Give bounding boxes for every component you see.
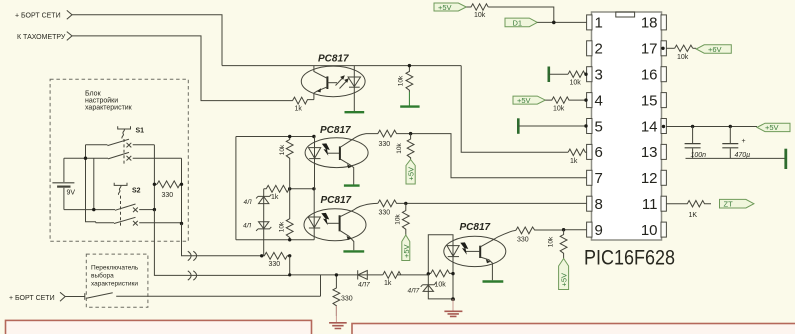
wire from + БОРТ СЕТИ to PC817 U1 rail [72, 15, 222, 66]
wire diode row (chevron row2 to PC817 U4) [290, 274, 429, 276]
svg-text:330: 330 [162, 192, 174, 199]
dashed box Блок настройки характеристик [50, 79, 188, 241]
svg-text:3: 3 [595, 67, 603, 84]
svg-text:+5V: +5V [517, 96, 531, 105]
red frame (bottom left table) [6, 320, 312, 334]
power flag +5V (pin 4) [513, 96, 545, 105]
op-amp U4 optocoupler PC817 [444, 222, 506, 267]
junction 10k bottom [288, 238, 291, 241]
zener 4Л7 (lower, in ladder) [243, 222, 271, 256]
power flag +6V (pin 17) [693, 45, 732, 54]
ground (earth, red) of U4 [444, 299, 462, 316]
junction cap C2 tap [729, 125, 732, 128]
resistor 10k (pin 4) [545, 97, 586, 113]
wire S1 pole1 output down to S2 row [153, 145, 155, 210]
power flag +5V (vertical, U3) [402, 235, 411, 261]
svg-text:2: 2 [595, 41, 603, 58]
svg-text:14: 14 [641, 118, 658, 135]
pin 8 [587, 196, 603, 213]
svg-text:5: 5 [595, 118, 603, 135]
resistor 10k (pull to +5V, U4 output) [548, 230, 567, 259]
svg-text:+ БОРТ СЕТИ: + БОРТ СЕТИ [9, 295, 55, 302]
transistor Q of U1 [314, 66, 337, 100]
svg-text:10k: 10k [395, 214, 402, 225]
junction battery- bus [92, 208, 95, 211]
power flag +5V (pin 14) [757, 123, 790, 132]
wire S1 pole2 output down to S2 pole2 row [181, 158, 183, 223]
pin 2 [587, 41, 603, 58]
LED D of U2 [309, 137, 321, 189]
power flag +5V (vertical, U2) [406, 160, 416, 185]
wire top feed row to LED chain [236, 136, 314, 138]
svg-text:9: 9 [595, 222, 603, 239]
wire 10k to pin1 [488, 7, 554, 22]
svg-text:D1: D1 [513, 18, 523, 27]
junction diode row [288, 273, 291, 276]
svg-text:S1: S1 [136, 128, 145, 135]
chevron connector row 2 [188, 271, 197, 280]
red frame (bottom right table) [352, 324, 795, 334]
resistor 1k (pin 6 series) [568, 149, 586, 165]
svg-text:4Л7: 4Л7 [408, 288, 420, 295]
svg-text:10k: 10k [570, 80, 582, 87]
svg-text:10k: 10k [474, 12, 486, 19]
svg-text:10: 10 [641, 222, 658, 239]
svg-text:10k: 10k [435, 282, 447, 289]
junction pin1 node [552, 21, 556, 25]
svg-text:10k: 10k [398, 75, 405, 86]
junction LED chain top [312, 135, 315, 138]
wire pin3 [549, 73, 568, 75]
junction 10k top [288, 135, 291, 138]
svg-text:PC817: PC817 [321, 195, 352, 206]
wire pin 14 power rail [666, 126, 757, 128]
svg-text:+5V: +5V [560, 273, 569, 287]
ground (green) of U4 emitter [483, 280, 504, 282]
junction U2 output [409, 132, 412, 135]
capacitor 470µ (polarized) [722, 127, 750, 159]
svg-text:10k: 10k [396, 143, 403, 154]
chevron connector row 1 [188, 251, 197, 260]
junction LED chain mid [312, 187, 315, 190]
svg-text:6: 6 [595, 144, 603, 161]
node + БОРТ СЕТИ (top input connector) [15, 10, 72, 19]
ground (earth, red) under 330 [329, 306, 347, 329]
junction cap C1 tap [691, 125, 694, 128]
svg-text:13: 13 [641, 144, 658, 161]
svg-text:1k: 1k [570, 158, 578, 165]
pin 11 [642, 196, 666, 213]
svg-text:9V: 9V [67, 190, 76, 197]
resistor 330 (inside box1) [154, 181, 181, 199]
wire rail БОРТ СЕТИ to pin6 riser [222, 65, 461, 67]
junction S2 pole1 net [153, 208, 156, 211]
resistor 10k (pull to +5V, U3 output) [395, 203, 410, 235]
wire 1k to LED column [290, 188, 314, 190]
resistor 330 (chevron row 1) [262, 252, 290, 268]
svg-text:470µ: 470µ [735, 152, 751, 159]
svg-text:+5V: +5V [765, 123, 779, 132]
svg-text:8: 8 [595, 196, 603, 213]
wire row A to S1 pole1 [86, 144, 108, 146]
junction U4 output [562, 228, 565, 231]
op-amp U2 optocoupler PC817 [305, 125, 368, 168]
IC U5 PIC16F628 body [584, 12, 675, 270]
svg-text:100n: 100n [691, 152, 707, 159]
pin 5 [587, 118, 603, 135]
junction 330 tap [335, 273, 338, 276]
svg-text:10k: 10k [279, 144, 286, 155]
svg-text:330: 330 [517, 237, 529, 244]
junction pin 3 [584, 73, 587, 76]
ground (green) of U3 emitter [343, 250, 364, 252]
pin 3 [587, 67, 603, 84]
pin 4 [587, 92, 603, 109]
pin 12 [641, 170, 667, 187]
junction row1 330 right [288, 254, 291, 257]
power flag +5V (pin1 pull-up) [434, 3, 466, 12]
wire vertical left bus (row A to S2 pole2) [86, 145, 115, 223]
svg-text:PIC16F628: PIC16F628 [584, 247, 675, 270]
resistor 1K (pin 11) [666, 201, 711, 219]
terminal bar (pin 5) [517, 118, 520, 134]
terminal bar (pin 3) [547, 67, 550, 83]
transistor Q of U2 [328, 134, 366, 185]
net flag D1 [505, 18, 537, 27]
pin 17 [641, 41, 667, 58]
svg-text:1k: 1k [295, 106, 303, 113]
svg-text:ZT: ZT [724, 200, 734, 209]
svg-text:17: 17 [641, 41, 658, 58]
pin 18 [641, 15, 667, 32]
junction U4 LED right [451, 272, 454, 275]
wire U4 output to pin 9 [564, 229, 587, 231]
junction 330 right [180, 183, 183, 186]
wire U2 output to pin 7 [411, 134, 587, 178]
resistor 1k (emitter input of U1) [293, 97, 314, 112]
svg-text:10k: 10k [279, 221, 286, 232]
ground (green) under 10k [400, 92, 419, 107]
wire U3 output to pin 8 [406, 202, 587, 204]
svg-text:10k: 10k [553, 105, 565, 112]
pin 14 [641, 118, 667, 135]
resistor 10k (vertical, upper bias) [279, 137, 293, 189]
op-amp U1 optocoupler PC817 (top, mirrored) [301, 54, 365, 97]
svg-text:+5V: +5V [407, 167, 416, 181]
junction U4 ground node [451, 297, 455, 301]
junction pin 4 [584, 98, 587, 101]
junction U4 LED left [427, 272, 430, 275]
switch S2 (dual pole) [114, 183, 182, 228]
pin 9 [587, 222, 603, 239]
junction dots 330 [153, 183, 156, 186]
svg-text:характеристики: характеристики [91, 281, 138, 288]
junction pin 17 [661, 47, 664, 50]
svg-text:7: 7 [595, 170, 603, 187]
wire bottom return row [236, 239, 314, 241]
resistor 10k (pull to +5V, U2 output) [396, 134, 414, 160]
resistor 10k (pin 3) [568, 71, 587, 87]
svg-text:+6V: +6V [708, 45, 722, 54]
wire battery+ row B to switch S1 pole2 [64, 157, 108, 159]
svg-text:+5V: +5V [438, 3, 452, 12]
dashed box Переключатель выбора характеристик [86, 254, 148, 307]
battery 9V [52, 158, 75, 209]
svg-text:1k: 1k [271, 194, 279, 201]
resistor 10k (pin 17) [675, 45, 693, 61]
svg-text:выбора: выбора [91, 272, 114, 280]
svg-text:PC817: PC817 [320, 125, 351, 136]
svg-text:15: 15 [641, 92, 658, 109]
light flash of U3 [321, 213, 329, 225]
terminal bar (cap return) [784, 149, 787, 169]
resistor 10k (pin1 pull-up) [466, 4, 488, 19]
pin 10 [641, 222, 667, 239]
LED D of U1 [348, 66, 360, 111]
junction U3 output [404, 202, 407, 205]
junction 1k right [288, 187, 291, 190]
svg-text:11: 11 [642, 196, 658, 213]
wire D1 to pin 1 [537, 21, 586, 23]
wire pin5 [518, 125, 586, 127]
svg-text:S2: S2 [132, 188, 141, 195]
wire LED anode feed of U4 [428, 235, 453, 274]
wire S2 pole2 net down to chevron row 1 [182, 224, 262, 256]
junction row1 330 left [260, 254, 263, 257]
ground (green) of U1 LED [345, 111, 365, 113]
wire riser to pin 6 [461, 66, 568, 153]
resistor 10k (across U4 LED) [428, 270, 453, 289]
resistor 330 (U2 collector) [366, 130, 411, 148]
svg-text:4Л: 4Л [243, 223, 252, 230]
pin 1 [587, 15, 603, 32]
pin 6 [587, 144, 603, 161]
resistor 1k (series, on row) [383, 272, 401, 288]
pin 13 [641, 144, 667, 161]
svg-text:330: 330 [379, 141, 391, 148]
svg-text:+5V: +5V [402, 244, 411, 258]
svg-text:1K: 1K [689, 212, 698, 219]
wire left feed vertical [235, 137, 237, 240]
junction pin 5 [584, 124, 587, 127]
junction pin 14 [662, 125, 665, 128]
wire cap return rail [686, 157, 786, 159]
resistor 330 (vertical, to ground) [333, 275, 353, 316]
zener 4Л7 (U4 input clamp) [408, 274, 454, 299]
pin 15 [641, 92, 667, 109]
net flag ZT (pin 11) [720, 199, 754, 208]
svg-text:330: 330 [341, 296, 353, 303]
svg-text:4Л7: 4Л7 [358, 282, 370, 289]
node К ТАХОМЕТРУ (tachometer connector) [17, 32, 72, 41]
svg-text:PC817: PC817 [318, 54, 349, 65]
capacitor 100n [685, 127, 707, 159]
resistor 330 (U4 collector) [516, 227, 564, 244]
svg-text:10k: 10k [548, 236, 555, 247]
svg-text:Переключатель: Переключатель [91, 265, 139, 272]
wire S2 pole1 net down to chevron row 2 [154, 210, 289, 276]
svg-text:12: 12 [641, 170, 658, 187]
zener 4Л7 (upper, in ladder) [244, 189, 272, 222]
LED D of U3 [308, 189, 320, 240]
light flash of U4 [460, 242, 468, 254]
LED D of U4 [447, 246, 459, 300]
resistor 330 (U3 collector) [378, 200, 406, 216]
node + БОРТ СЕТИ (bottom input connector) [9, 292, 65, 302]
transistor Q of U3 [327, 203, 377, 250]
resistor 10k (vertical, lower bias) [279, 189, 294, 240]
svg-text:Блок: Блок [85, 91, 102, 98]
svg-text:1: 1 [595, 15, 603, 32]
light arrows of U1 [336, 75, 349, 88]
svg-text:настройки: настройки [85, 97, 118, 105]
svg-text:16: 16 [641, 67, 658, 84]
power flag +5V (vertical, U4 pull-up) [559, 259, 569, 290]
ground (green) of U2 emitter [344, 184, 360, 186]
svg-text:18: 18 [641, 15, 658, 32]
junction dots in box [84, 157, 87, 160]
switch S1 (dual pole) [108, 126, 182, 164]
wire row B tap down to battery- row [93, 158, 95, 209]
svg-text:характеристик: характеристик [85, 105, 133, 112]
svg-text:К ТАХОМЕТРУ: К ТАХОМЕТРУ [17, 34, 66, 41]
wire БОРТ СЕТИ riser [320, 275, 322, 296]
pin 7 [587, 170, 603, 187]
light flash of U2 [322, 143, 330, 155]
svg-text:PC817: PC817 [460, 222, 491, 233]
op-amp U3 optocoupler PC817 [304, 195, 366, 241]
switch Переключатель on БОРТ СЕТИ line [65, 293, 320, 300]
svg-text:4Л: 4Л [244, 199, 253, 206]
wire pin 17 [666, 47, 674, 49]
resistor 10k (U1 collector load) [398, 66, 413, 92]
svg-text:+ БОРТ СЕТИ: + БОРТ СЕТИ [15, 13, 61, 20]
wire from К ТАХОМЕТРУ to resistor 1k of U1 [72, 36, 293, 101]
resistor 1k (to zener ladder) [264, 185, 290, 201]
junction U1 rail [408, 64, 411, 67]
svg-text:1k: 1k [384, 280, 392, 287]
pin 16 [641, 67, 667, 84]
svg-text:4: 4 [595, 92, 603, 109]
wire 330 right end down to diode row [289, 256, 291, 275]
svg-text:+: + [742, 138, 746, 145]
svg-text:330: 330 [379, 209, 391, 216]
wire battery- row to S2 pole1 [64, 209, 115, 211]
transistor Q of U4 [466, 230, 516, 280]
svg-text:10k: 10k [677, 54, 689, 61]
svg-text:330: 330 [269, 261, 281, 268]
junction S2 pole2 net [180, 222, 183, 225]
diode 4Л7 (series, on row) [358, 270, 370, 288]
